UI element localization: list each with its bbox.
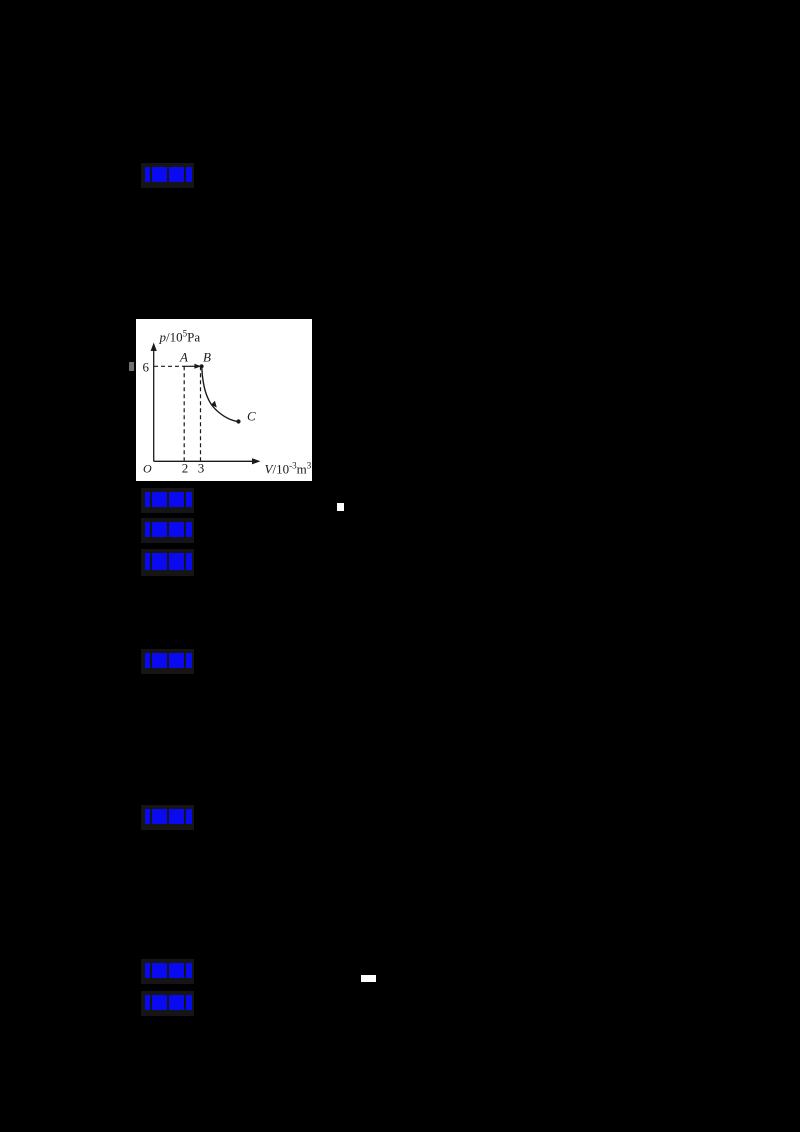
white square mark bbox=[337, 503, 344, 511]
tag label L3 [详解] bbox=[141, 518, 194, 543]
x axis bbox=[154, 460, 255, 462]
tag label L5 [详解] bbox=[141, 649, 194, 674]
dashed vertical V=3 bbox=[200, 366, 202, 461]
curve arrowhead bbox=[211, 401, 217, 408]
point B dot bbox=[200, 364, 204, 368]
svg-text:V/10-3m3: V/10-3m3 bbox=[265, 461, 312, 477]
tag label L6 [点睛] bbox=[141, 805, 194, 830]
gray nub left of chart box bbox=[129, 362, 134, 371]
point C dot bbox=[236, 419, 240, 423]
svg-text:6: 6 bbox=[143, 360, 150, 375]
tag label L4 [分析] bbox=[141, 549, 194, 576]
svg-text:A: A bbox=[179, 349, 188, 364]
white dash mark bbox=[361, 975, 376, 982]
svg-text:p/105Pa: p/105Pa bbox=[159, 329, 201, 345]
svg-text:C: C bbox=[247, 409, 256, 424]
svg-text:3: 3 bbox=[198, 461, 205, 476]
x axis arrowhead bbox=[252, 458, 261, 464]
svg-text:B: B bbox=[203, 349, 211, 364]
arrow A to B bbox=[183, 365, 197, 367]
chart figure: p-V diagram image bbox=[136, 319, 312, 481]
tag label L2 [答案] bbox=[141, 488, 194, 513]
dashed vertical V=2 bbox=[183, 366, 185, 461]
tag label L8 [详解] bbox=[141, 991, 194, 1016]
curve B to C bbox=[202, 368, 238, 421]
y axis bbox=[153, 350, 155, 461]
tag label L1 [答案] bbox=[141, 163, 194, 188]
svg-text:O: O bbox=[143, 462, 152, 476]
dashed line p=6 bbox=[154, 365, 183, 367]
tag label L7 [答案] bbox=[141, 959, 194, 984]
svg-text:2: 2 bbox=[182, 461, 189, 476]
y axis arrowhead bbox=[151, 343, 157, 352]
